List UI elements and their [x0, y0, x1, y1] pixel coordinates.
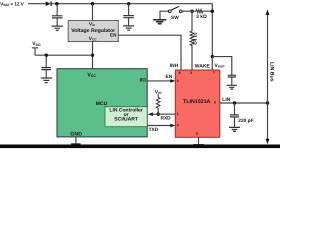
- ground for C3: [41, 78, 52, 83]
- capacitor C3: [41, 68, 51, 70]
- node junction LIN cap: [233, 101, 236, 104]
- wire C4 to gnd: [231, 77, 233, 85]
- svg-text:VCC: VCC: [89, 36, 98, 42]
- svg-text:Voltage Regulator: Voltage Regulator: [71, 28, 115, 34]
- node junction Vsup branch: [211, 55, 214, 58]
- ground for C1: [52, 26, 63, 30]
- svg-text:3 kΩ: 3 kΩ: [196, 14, 207, 20]
- diode D1: [46, 1, 52, 6]
- ground rail bottom: [0, 145, 280, 149]
- svg-text:2: 2: [177, 79, 179, 83]
- node junction 3k-rail: [211, 10, 214, 13]
- wire Vin drop: [92, 4, 94, 21]
- svg-text:EN: EN: [166, 74, 173, 80]
- node junction rail-cap2: [127, 2, 130, 5]
- wire LIN: [220, 102, 268, 104]
- switch SW: [168, 6, 182, 12]
- svg-text:5: 5: [196, 131, 198, 135]
- arrow bus bottom: [266, 139, 270, 145]
- svg-text:6: 6: [214, 101, 216, 105]
- ground for C2: [123, 26, 134, 30]
- arrow TXD into TLIN: [170, 124, 175, 128]
- svg-text:3: 3: [190, 71, 192, 75]
- svg-text:7: 7: [213, 71, 215, 75]
- wire cap2 stem: [128, 4, 130, 26]
- svg-text:INH: INH: [170, 63, 179, 69]
- resistor R3 33k vertical: [190, 31, 194, 45]
- svg-text:VCC: VCC: [87, 72, 96, 78]
- svg-text:LIN Bus: LIN Bus: [269, 62, 275, 82]
- wire VBAT rail top: [28, 4, 212, 57]
- wire Vsup pin: [211, 57, 213, 70]
- svg-text:Vin: Vin: [89, 21, 95, 27]
- arrow RXD into MCU: [148, 112, 153, 116]
- svg-text:1: 1: [177, 112, 179, 116]
- svg-text:VBAT = 12 V: VBAT = 12 V: [0, 1, 24, 7]
- svg-text:VSUP: VSUP: [214, 63, 225, 69]
- capacitor C5 220pF: [230, 115, 239, 117]
- svg-text:GND: GND: [70, 131, 82, 137]
- arrow EN into TLIN: [170, 79, 175, 83]
- wire cap1 stem: [56, 4, 58, 26]
- ground for C4: [227, 85, 237, 89]
- ground for switch: [153, 20, 166, 24]
- svg-text:RXD: RXD: [161, 116, 172, 122]
- wire C5 stem: [234, 103, 236, 127]
- wire Vsup cap branch: [212, 57, 232, 76]
- svg-text:LIN: LIN: [222, 97, 230, 103]
- svg-text:EN: EN: [110, 33, 117, 38]
- svg-text:I/O: I/O: [140, 78, 147, 84]
- node junction Vdd-cap3: [45, 54, 48, 57]
- resistor R2 pullup: [156, 97, 160, 108]
- svg-text:8: 8: [179, 71, 181, 75]
- MCU U3 box: [57, 69, 147, 137]
- svg-text:TLIN1021A: TLIN1021A: [183, 99, 211, 105]
- svg-text:220 pF: 220 pF: [238, 118, 253, 124]
- node junction 3k-33k: [190, 10, 193, 13]
- svg-text:SW: SW: [171, 15, 179, 21]
- node junction Vin: [91, 2, 94, 5]
- LIN controller inner box: [105, 107, 147, 127]
- ground tick MCU: [71, 143, 81, 144]
- voltage regulator U2 box: [68, 21, 118, 42]
- svg-text:SCI/UART: SCI/UART: [114, 117, 138, 123]
- wire switch branch: [160, 11, 192, 70]
- svg-text:VDD: VDD: [32, 41, 41, 47]
- capacitor C4: [228, 75, 236, 77]
- wire MCU GND to rail: [75, 137, 77, 144]
- TLIN1021A U1 box: [175, 70, 220, 137]
- capacitor C1: [52, 16, 63, 18]
- wire Vcc drop to MCU: [92, 42, 94, 69]
- node junction Vdd-Vcc: [91, 54, 94, 57]
- ground for C5: [229, 127, 240, 131]
- wire TLIN GND to rail: [198, 137, 200, 144]
- svg-text:WAKE: WAKE: [195, 64, 211, 70]
- node junction RXD pullup: [157, 113, 160, 116]
- svg-text:MCU: MCU: [96, 101, 108, 107]
- wire RXD: [151, 113, 176, 115]
- resistor R1 3k: [196, 10, 203, 13]
- wire cap3 stem: [45, 55, 47, 78]
- ground tick TLIN: [193, 144, 204, 145]
- arrow bus top: [266, 10, 270, 16]
- svg-text:4: 4: [177, 123, 179, 127]
- wire VDD tap: [32, 48, 93, 55]
- wire TXD: [147, 125, 172, 127]
- wire I/O to EN: [147, 80, 172, 82]
- svg-text:33 kΩ: 33 kΩ: [192, 32, 197, 45]
- svg-text:TXD: TXD: [149, 127, 159, 133]
- node junction LIN bus: [266, 101, 269, 104]
- wire 3k to rail: [192, 10, 212, 12]
- wire VIO stub: [157, 94, 159, 97]
- wire LIN bus vertical: [267, 14, 269, 140]
- wire R2 to RXD: [157, 108, 159, 114]
- node junction VBAT-cap: [55, 2, 58, 5]
- wire regulator EN to INH: [118, 35, 181, 70]
- capacitor C2: [123, 16, 134, 18]
